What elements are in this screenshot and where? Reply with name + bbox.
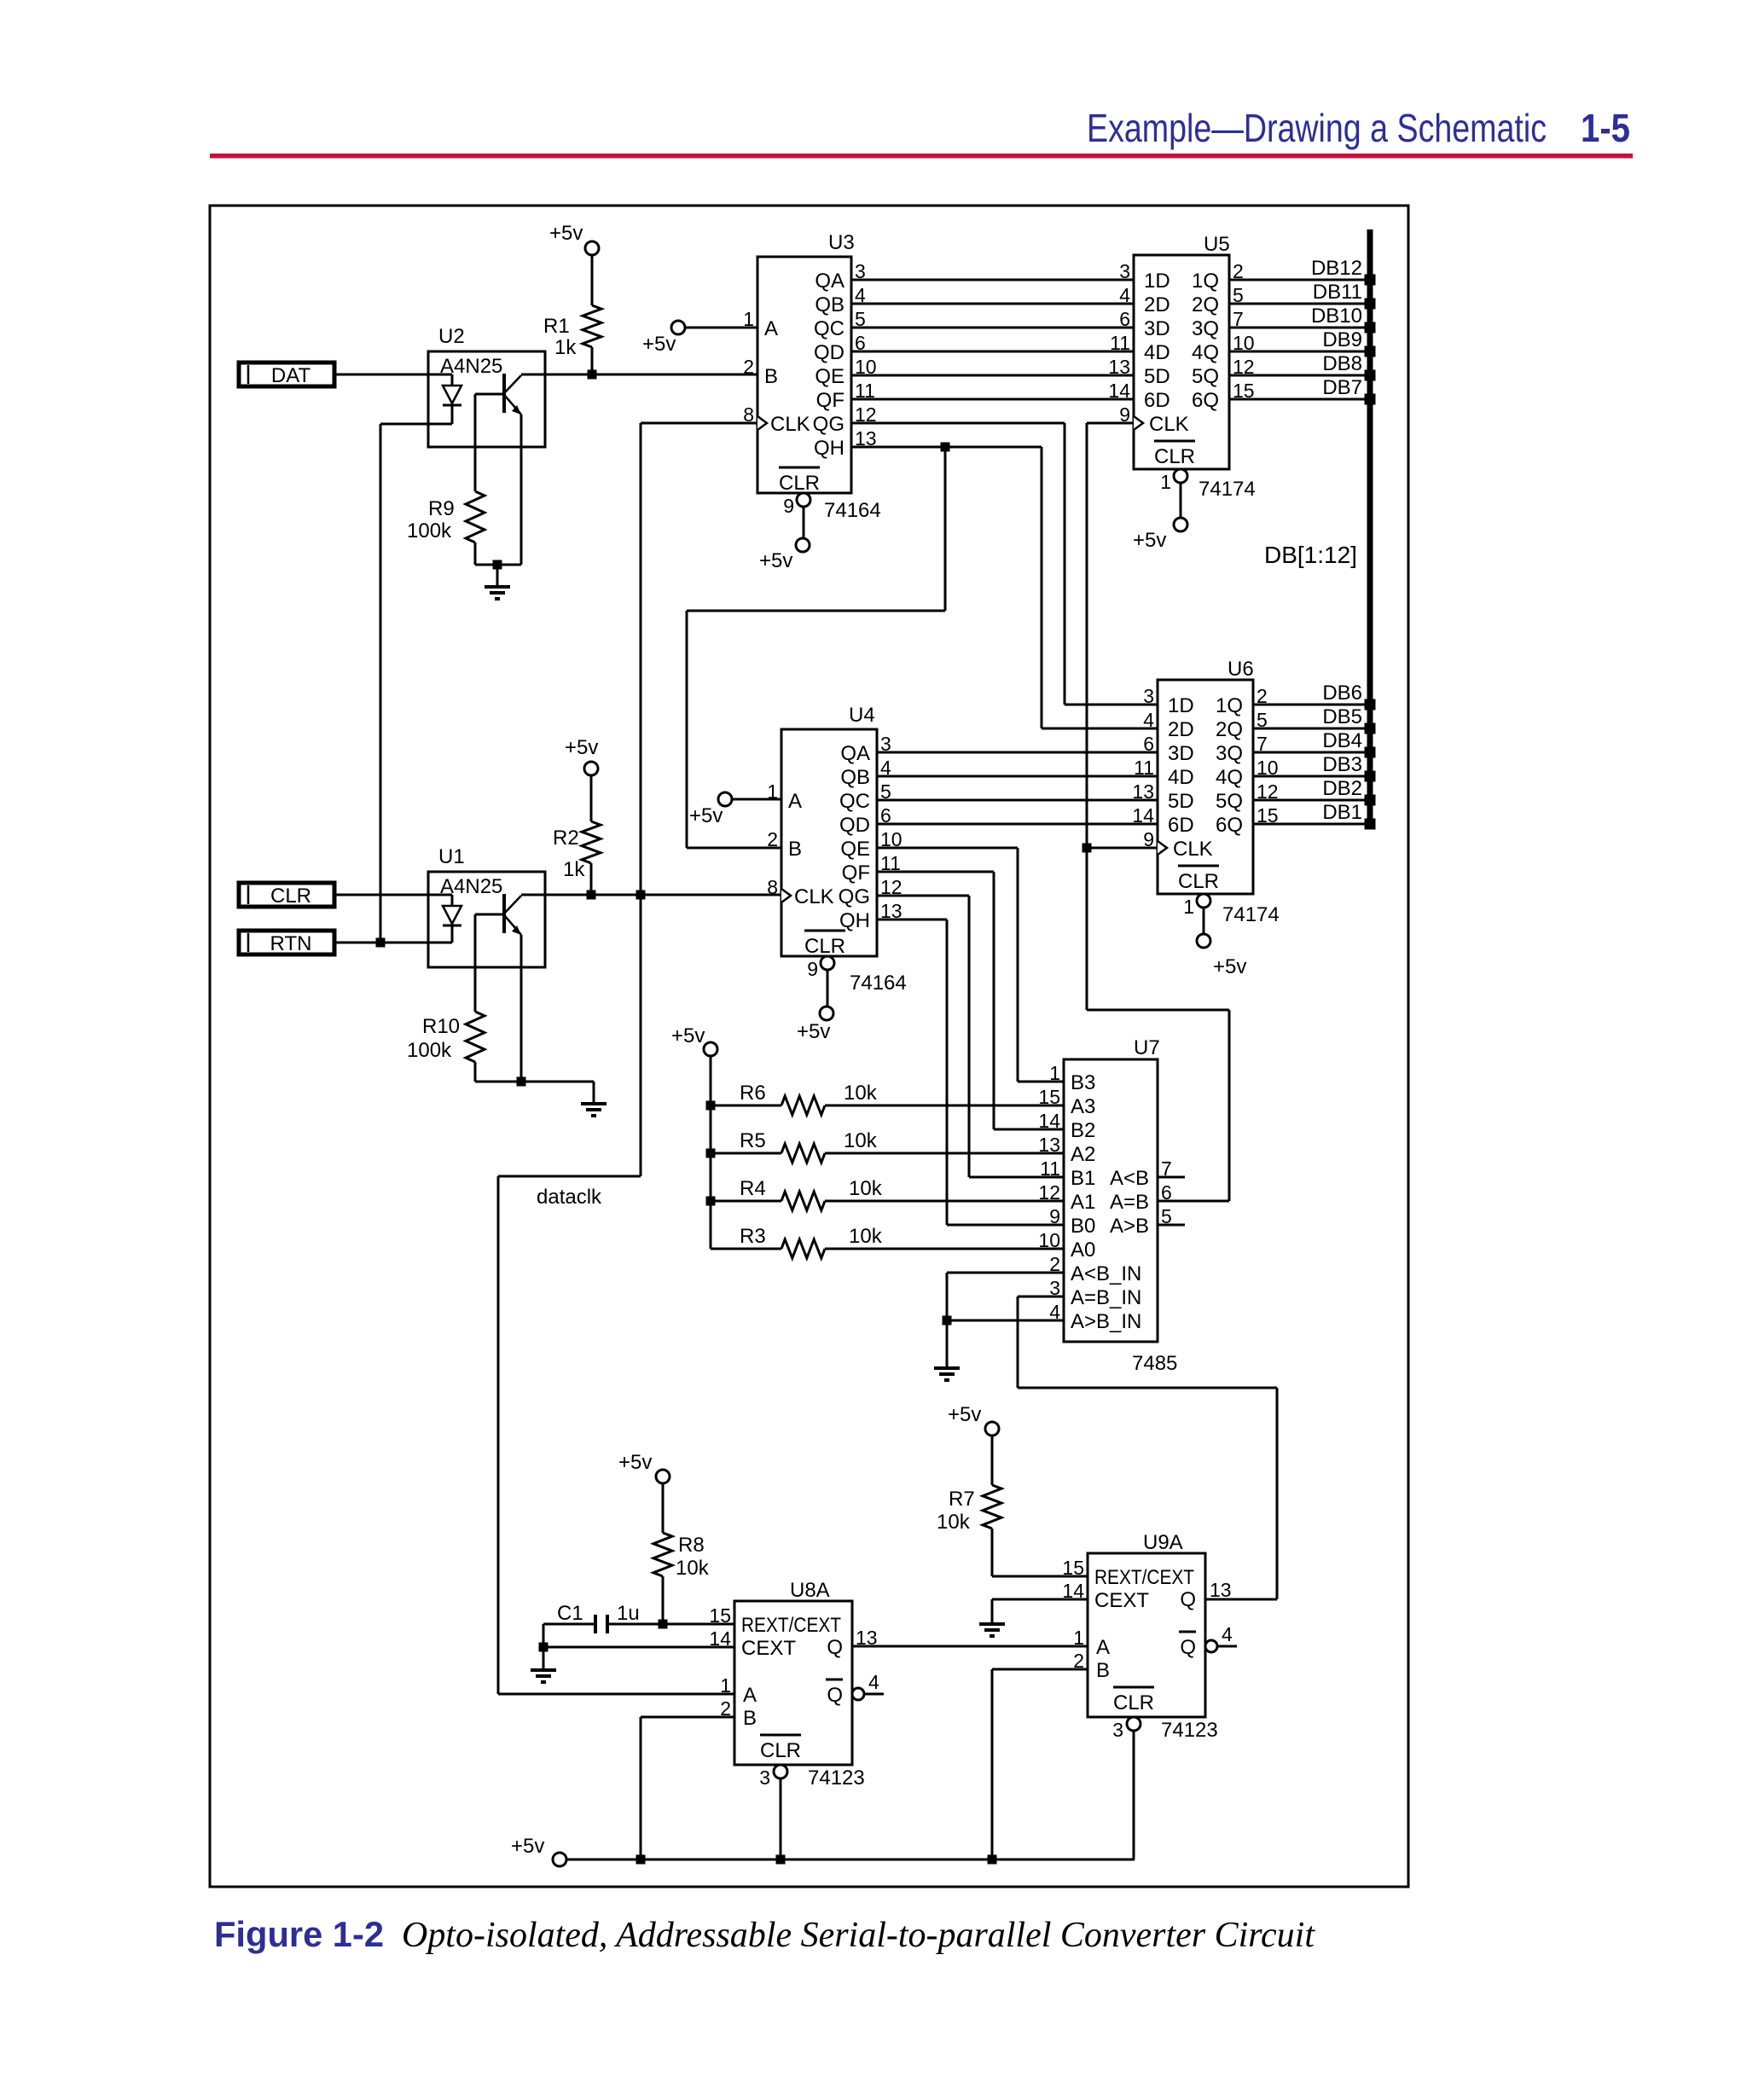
svg-text:2: 2 xyxy=(743,356,754,378)
svg-text:100k: 100k xyxy=(407,519,452,542)
svg-text:13: 13 xyxy=(1038,1134,1060,1156)
junction U1 emitter node xyxy=(517,1077,526,1087)
svg-text:DB12: DB12 xyxy=(1311,257,1362,280)
junction cascade ground node xyxy=(943,1316,952,1326)
svg-text:B3: B3 xyxy=(1071,1071,1095,1094)
svg-text:QG: QG xyxy=(813,413,844,436)
svg-text:CLR: CLR xyxy=(779,472,820,495)
wire U8A B to +5v rail xyxy=(641,1716,734,1719)
svg-text:4: 4 xyxy=(1143,709,1154,731)
svg-text:U9A: U9A xyxy=(1143,1531,1183,1554)
svg-text:5Q: 5Q xyxy=(1192,365,1219,388)
svg-text:Q: Q xyxy=(827,1636,843,1659)
wire U2 emitter down xyxy=(520,415,523,565)
svg-text:U6: U6 xyxy=(1228,658,1254,681)
svg-text:QC: QC xyxy=(814,317,844,340)
svg-text:1k: 1k xyxy=(554,336,577,359)
svg-text:R6: R6 xyxy=(740,1082,766,1105)
bus DB[1:12] xyxy=(1367,229,1373,824)
svg-text:A4N25: A4N25 xyxy=(440,875,502,898)
svg-text:A>B_IN: A>B_IN xyxy=(1071,1310,1141,1333)
svg-text:A2: A2 xyxy=(1071,1143,1095,1166)
svg-text:14: 14 xyxy=(1062,1580,1084,1602)
resistor R3 10k xyxy=(711,1248,781,1250)
U3 pin 9 CLR bubble to +5v xyxy=(797,493,810,507)
power +5v for R1 xyxy=(585,241,599,255)
svg-text:QB: QB xyxy=(815,293,844,316)
svg-text:U7: U7 xyxy=(1134,1036,1160,1059)
svg-text:A1: A1 xyxy=(1071,1191,1095,1214)
svg-text:B: B xyxy=(1096,1659,1110,1682)
wire U1 base to R10 xyxy=(474,914,477,1012)
svg-text:6D: 6D xyxy=(1144,389,1170,412)
svg-text:Figure 1-2: Figure 1-2 xyxy=(214,1914,384,1954)
svg-text:DB5: DB5 xyxy=(1322,705,1362,728)
U9A pin 3 CLR bubble xyxy=(1127,1717,1140,1731)
power +5v for R8 xyxy=(656,1470,670,1483)
wire C1 to CEXT and ground xyxy=(543,1624,545,1647)
svg-text:14: 14 xyxy=(1132,804,1154,827)
svg-text:4: 4 xyxy=(868,1671,879,1693)
svg-text:QE: QE xyxy=(840,838,870,861)
connector RTN xyxy=(239,931,334,954)
svg-text:+5v: +5v xyxy=(1133,529,1166,552)
net dataclk to U8A A xyxy=(640,895,642,1176)
svg-text:DB11: DB11 xyxy=(1313,281,1362,304)
wire U9A CEXT to ground xyxy=(992,1598,1088,1601)
svg-text:1: 1 xyxy=(767,780,778,803)
svg-text:3D: 3D xyxy=(1168,742,1194,765)
wire DAT to U2 LED anode xyxy=(334,374,452,376)
svg-text:3: 3 xyxy=(1112,1719,1123,1741)
schematic border frame xyxy=(210,206,1408,1887)
connector CLR xyxy=(239,883,334,907)
svg-text:6: 6 xyxy=(1161,1181,1172,1204)
svg-text:R5: R5 xyxy=(740,1129,766,1152)
svg-text:REXT/CEXT: REXT/CEXT xyxy=(741,1614,841,1637)
svg-text:+5v: +5v xyxy=(511,1835,544,1858)
svg-text:3Q: 3Q xyxy=(1192,317,1219,340)
svg-text:A3: A3 xyxy=(1071,1095,1095,1118)
bus junction dots U6 xyxy=(1365,699,1376,711)
svg-text:+5v: +5v xyxy=(642,333,676,356)
svg-text:A: A xyxy=(788,790,802,813)
svg-text:1: 1 xyxy=(1073,1627,1084,1649)
svg-text:1D: 1D xyxy=(1168,694,1194,717)
ground under U1 xyxy=(593,1082,595,1104)
svg-text:1k: 1k xyxy=(563,858,585,881)
junction R2 on clock line xyxy=(587,890,596,900)
svg-text:+5v: +5v xyxy=(759,549,792,572)
svg-text:9: 9 xyxy=(807,958,818,980)
svg-text:CLK: CLK xyxy=(770,413,810,436)
junction R5 feed xyxy=(706,1149,716,1158)
svg-text:A=B_IN: A=B_IN xyxy=(1071,1286,1141,1309)
svg-text:11: 11 xyxy=(1110,332,1130,354)
svg-text:U4: U4 xyxy=(849,704,875,727)
svg-text:CLR: CLR xyxy=(804,935,845,958)
svg-text:DB[1:12]: DB[1:12] xyxy=(1264,542,1357,568)
resistor R8 10k xyxy=(653,1533,672,1576)
wires U6 outputs to bus DB6-DB1 xyxy=(1253,704,1370,706)
svg-text:5D: 5D xyxy=(1144,365,1170,388)
junction U8A CLR on rail xyxy=(776,1855,786,1865)
svg-text:A=B: A=B xyxy=(1110,1191,1149,1214)
junction dataclk branch xyxy=(636,890,646,900)
svg-text:+5v: +5v xyxy=(689,804,723,827)
svg-text:QF: QF xyxy=(842,861,870,885)
ground for U7 cascade inputs xyxy=(934,1366,960,1370)
wire U1 emitter down xyxy=(520,935,523,1082)
svg-text:6Q: 6Q xyxy=(1192,389,1219,412)
bus junction dots U5 xyxy=(1365,275,1376,286)
capacitor C1 1u xyxy=(543,1623,595,1626)
svg-text:5D: 5D xyxy=(1168,790,1194,813)
power +5v to U4 pin A xyxy=(718,792,732,806)
svg-text:1D: 1D xyxy=(1144,270,1170,293)
svg-text:+5v: +5v xyxy=(1213,955,1246,978)
svg-text:Q: Q xyxy=(827,1684,843,1707)
U7 A>B output stub xyxy=(1158,1224,1185,1227)
junction R8-C1-REXT xyxy=(659,1620,668,1629)
svg-text:dataclk: dataclk xyxy=(537,1186,602,1209)
svg-text:1Q: 1Q xyxy=(1192,270,1219,293)
wire U7 cascade inputs to ground xyxy=(947,1272,1064,1274)
svg-text:CLR: CLR xyxy=(270,885,311,908)
svg-text:C1: C1 xyxy=(557,1602,583,1625)
svg-text:DB3: DB3 xyxy=(1322,753,1362,776)
U6 pin 1 CLR bubble to +5v xyxy=(1197,894,1210,908)
svg-text:B: B xyxy=(788,838,802,861)
power +5v for R2 xyxy=(584,762,598,775)
wire U4 QF to U7 B2 xyxy=(877,871,994,873)
svg-text:DB4: DB4 xyxy=(1322,729,1362,752)
svg-text:3Q: 3Q xyxy=(1216,742,1243,765)
svg-text:A>B: A>B xyxy=(1110,1215,1149,1238)
svg-text:CLR: CLR xyxy=(1113,1691,1154,1714)
svg-text:QE: QE xyxy=(815,365,844,388)
junction U9A B on rail xyxy=(988,1855,997,1865)
wire U2 LED cathode to RTN node xyxy=(380,423,452,426)
svg-text:12: 12 xyxy=(1038,1181,1060,1204)
svg-text:74123: 74123 xyxy=(808,1766,865,1790)
U7 A<B output stub xyxy=(1158,1176,1185,1179)
svg-text:DB7: DB7 xyxy=(1322,376,1362,399)
svg-text:QA: QA xyxy=(840,742,870,765)
svg-text:2: 2 xyxy=(767,828,778,850)
svg-text:4Q: 4Q xyxy=(1216,766,1243,789)
wire U2 collector to U3 pin B xyxy=(521,374,757,376)
optocoupler U1 box xyxy=(428,872,545,967)
svg-text:2D: 2D xyxy=(1144,293,1170,316)
wire U8A Q to U9A A xyxy=(852,1645,1088,1648)
svg-text:9: 9 xyxy=(1049,1205,1060,1227)
svg-text:7485: 7485 xyxy=(1132,1352,1177,1375)
svg-text:100k: 100k xyxy=(407,1039,452,1062)
U8A pin 3 CLR bubble xyxy=(774,1765,787,1778)
svg-text:QB: QB xyxy=(840,766,870,789)
svg-text:CLR: CLR xyxy=(1154,445,1195,468)
wire CLR to U1 LED anode xyxy=(334,894,452,896)
junction U3 QH branch xyxy=(941,443,950,452)
svg-text:2Q: 2Q xyxy=(1216,718,1243,741)
svg-text:+5v: +5v xyxy=(797,1020,830,1043)
svg-text:1: 1 xyxy=(743,308,754,330)
shift register U3 74164 box xyxy=(757,257,851,493)
svg-text:11: 11 xyxy=(1134,757,1154,779)
svg-text:A: A xyxy=(743,1684,757,1707)
svg-text:R7: R7 xyxy=(949,1488,975,1511)
junction U2 emitter-R9-ground xyxy=(493,560,502,570)
svg-text:RTN: RTN xyxy=(270,932,312,955)
header red rule xyxy=(210,154,1633,159)
svg-text:U8A: U8A xyxy=(790,1579,830,1602)
svg-text:14: 14 xyxy=(1038,1110,1060,1132)
one-shot U9A 74123 box xyxy=(1088,1553,1205,1717)
svg-text:R8: R8 xyxy=(678,1534,705,1557)
svg-text:QH: QH xyxy=(814,437,844,460)
svg-text:8: 8 xyxy=(743,403,754,426)
svg-text:3: 3 xyxy=(1119,260,1130,282)
svg-text:R3: R3 xyxy=(740,1225,766,1248)
svg-text:10k: 10k xyxy=(844,1082,878,1105)
wires U4 QA-QD to U6 3D-6D xyxy=(877,751,1158,754)
wire U3 QH to U6 2D xyxy=(851,446,1042,449)
svg-text:1: 1 xyxy=(1049,1062,1060,1084)
svg-text:QA: QA xyxy=(815,270,844,293)
wire dataclk to U3 CLK xyxy=(641,422,757,425)
svg-text:6D: 6D xyxy=(1168,814,1194,837)
one-shot U8A 74123 box xyxy=(734,1601,852,1765)
power +5v to U3 pin A xyxy=(671,321,685,334)
resistor R4 10k xyxy=(711,1200,781,1203)
svg-text:4: 4 xyxy=(1119,284,1130,306)
svg-text:CEXT: CEXT xyxy=(1094,1589,1149,1612)
svg-text:4D: 4D xyxy=(1144,341,1170,364)
svg-text:R1: R1 xyxy=(543,315,570,338)
svg-text:3: 3 xyxy=(1143,685,1154,707)
svg-text:1Q: 1Q xyxy=(1216,694,1243,717)
resistor R10 100k xyxy=(466,1012,485,1062)
wire U9A Q to U7 A=B_IN xyxy=(1018,1296,1064,1298)
svg-text:A: A xyxy=(764,317,778,340)
svg-text:1: 1 xyxy=(1183,896,1194,918)
power +5v for resistor bank xyxy=(704,1042,717,1056)
svg-text:14: 14 xyxy=(709,1627,731,1650)
ground under U2 xyxy=(496,565,499,587)
shift register U4 74164 box xyxy=(781,729,877,956)
svg-text:CLK: CLK xyxy=(794,885,834,908)
svg-text:10k: 10k xyxy=(676,1557,710,1580)
svg-text:R9: R9 xyxy=(428,497,455,520)
optocoupler U2 box xyxy=(428,351,545,447)
svg-text:R10: R10 xyxy=(422,1015,460,1038)
svg-text:6Q: 6Q xyxy=(1216,814,1243,837)
ground for U9A CEXT xyxy=(979,1622,1005,1626)
U5 pin 1 CLR bubble to +5v xyxy=(1174,469,1187,483)
svg-text:15: 15 xyxy=(709,1604,731,1627)
svg-text:5Q: 5Q xyxy=(1216,790,1243,813)
svg-text:11: 11 xyxy=(1040,1157,1060,1180)
wire U4 QE to U7 B3 xyxy=(877,847,1018,850)
svg-text:1-5: 1-5 xyxy=(1581,106,1630,150)
svg-text:DB8: DB8 xyxy=(1322,352,1362,375)
svg-text:+5v: +5v xyxy=(549,222,583,245)
svg-text:U1: U1 xyxy=(438,845,465,868)
svg-text:6: 6 xyxy=(1119,308,1130,330)
svg-text:15: 15 xyxy=(1038,1086,1060,1108)
wire U3 QH wrap to U4 pin B xyxy=(944,447,947,611)
svg-text:+5v: +5v xyxy=(671,1024,705,1047)
svg-text:10k: 10k xyxy=(937,1511,971,1534)
svg-text:CLK: CLK xyxy=(1149,413,1189,436)
svg-text:CLR: CLR xyxy=(760,1739,801,1762)
junction U8A B on rail xyxy=(636,1855,646,1865)
svg-text:4Q: 4Q xyxy=(1192,341,1219,364)
hex flip-flop U5 74174 box xyxy=(1134,255,1229,469)
U4 pin 9 CLR bubble to +5v xyxy=(821,956,834,970)
svg-text:QF: QF xyxy=(816,389,844,412)
wire U3 QG to U6 1D xyxy=(851,422,1065,425)
wire R7 to U9A REXT xyxy=(992,1575,1088,1578)
svg-text:+5v: +5v xyxy=(948,1403,981,1426)
connector DAT xyxy=(239,363,334,386)
svg-text:B2: B2 xyxy=(1071,1119,1095,1142)
svg-text:74164: 74164 xyxy=(850,972,907,995)
wire U4 QG to U7 B1 xyxy=(877,895,969,897)
svg-text:DB10: DB10 xyxy=(1311,305,1362,328)
svg-text:1: 1 xyxy=(720,1674,731,1697)
resistor R2 1k xyxy=(582,821,601,863)
svg-text:CEXT: CEXT xyxy=(741,1637,796,1660)
resistor R5 10k xyxy=(711,1152,781,1155)
junction RTN return node xyxy=(376,938,386,948)
svg-text:74174: 74174 xyxy=(1199,478,1256,501)
svg-text:U2: U2 xyxy=(438,325,465,348)
resistor R6 10k xyxy=(711,1105,781,1107)
svg-text:74174: 74174 xyxy=(1222,903,1280,926)
svg-text:A<B_IN: A<B_IN xyxy=(1071,1262,1141,1285)
svg-text:13: 13 xyxy=(1132,780,1154,803)
ground for U8A CEXT xyxy=(531,1668,556,1672)
svg-text:4D: 4D xyxy=(1168,766,1194,789)
junction C1-CEXT-ground xyxy=(539,1643,548,1652)
svg-text:A: A xyxy=(1096,1636,1110,1659)
svg-text:CLR: CLR xyxy=(1178,870,1219,893)
svg-text:Q: Q xyxy=(1180,1588,1196,1611)
svg-text:2D: 2D xyxy=(1168,718,1194,741)
svg-text:13: 13 xyxy=(1108,356,1130,378)
resistor R9 100k xyxy=(466,491,485,542)
svg-text:QC: QC xyxy=(839,790,870,813)
wire U2 base to R9 xyxy=(474,394,477,491)
svg-text:6: 6 xyxy=(1143,733,1154,755)
svg-text:9: 9 xyxy=(783,495,794,517)
power +5v rail at bottom xyxy=(553,1853,566,1866)
power +5v for R7 xyxy=(985,1422,999,1436)
svg-text:DB1: DB1 xyxy=(1322,801,1362,824)
junction R1-DAT line xyxy=(588,370,597,380)
svg-text:DAT: DAT xyxy=(271,364,311,387)
svg-text:U3: U3 xyxy=(828,231,855,254)
svg-text:14: 14 xyxy=(1108,380,1130,402)
transistor Q inside U2 xyxy=(502,374,506,413)
svg-text:QH: QH xyxy=(839,909,870,932)
svg-text:74123: 74123 xyxy=(1161,1719,1218,1742)
svg-text:R4: R4 xyxy=(740,1177,766,1200)
svg-text:2Q: 2Q xyxy=(1192,293,1219,316)
svg-text:DB2: DB2 xyxy=(1322,777,1362,800)
svg-text:9: 9 xyxy=(1143,828,1154,850)
svg-text:Opto-isolated, Addressable Ser: Opto-isolated, Addressable Serial-to-par… xyxy=(402,1916,1315,1955)
wire U4 QH to U7 B0 xyxy=(877,919,947,921)
svg-text:3D: 3D xyxy=(1144,317,1170,340)
svg-text:10k: 10k xyxy=(849,1177,883,1200)
svg-text:U5: U5 xyxy=(1204,233,1230,256)
svg-text:9: 9 xyxy=(1119,403,1130,426)
svg-text:QG: QG xyxy=(839,885,870,908)
svg-text:10k: 10k xyxy=(844,1129,878,1152)
wires U3 QA-QF to U5 1D-6D xyxy=(851,279,1134,281)
svg-text:Example—Drawing a Schematic: Example—Drawing a Schematic xyxy=(1087,106,1547,150)
svg-text:A0: A0 xyxy=(1071,1239,1095,1262)
svg-text:B1: B1 xyxy=(1071,1167,1095,1190)
junction R4 feed xyxy=(706,1197,716,1206)
svg-text:10: 10 xyxy=(1038,1229,1060,1251)
svg-text:10k: 10k xyxy=(849,1225,883,1248)
svg-text:QD: QD xyxy=(839,814,870,837)
U2 LED diode xyxy=(451,374,454,386)
svg-text:REXT/CEXT: REXT/CEXT xyxy=(1094,1566,1194,1589)
svg-text:A4N25: A4N25 xyxy=(440,355,502,378)
transistor Q inside U1 xyxy=(502,894,506,933)
resistor R1 1k xyxy=(583,305,601,347)
svg-text:+5v: +5v xyxy=(565,736,598,759)
svg-text:74164: 74164 xyxy=(824,499,881,522)
U1 LED diode xyxy=(451,895,454,906)
svg-text:1: 1 xyxy=(1160,471,1171,493)
svg-text:15: 15 xyxy=(1062,1557,1084,1579)
svg-text:B: B xyxy=(764,365,778,388)
resistor R7 10k xyxy=(983,1485,1001,1529)
svg-text:CLK: CLK xyxy=(1173,838,1213,861)
svg-text:DB6: DB6 xyxy=(1322,682,1362,705)
svg-text:QD: QD xyxy=(814,341,844,364)
svg-text:3: 3 xyxy=(759,1766,770,1789)
svg-text:Q: Q xyxy=(1180,1636,1196,1659)
svg-text:B0: B0 xyxy=(1071,1215,1095,1238)
svg-text:A<B: A<B xyxy=(1110,1167,1149,1190)
wires U5 outputs to bus DB12-DB7 xyxy=(1229,279,1370,281)
net CLK to U5 and U6 from U7 A=B xyxy=(1087,422,1134,425)
wire RTN to U1 LED cathode xyxy=(334,942,452,944)
hex flip-flop U6 74174 box xyxy=(1158,680,1253,894)
wire U1 collector clock line to U4 CLK xyxy=(521,894,781,896)
svg-text:DB9: DB9 xyxy=(1322,328,1362,351)
wire U9A B to +5v rail xyxy=(992,1668,1088,1671)
svg-text:13: 13 xyxy=(1210,1579,1232,1601)
svg-text:R2: R2 xyxy=(553,827,579,850)
svg-text:4: 4 xyxy=(1222,1623,1233,1645)
junction R6 feed xyxy=(706,1101,716,1111)
svg-text:1u: 1u xyxy=(617,1602,640,1625)
svg-text:+5v: +5v xyxy=(618,1451,652,1474)
svg-text:B: B xyxy=(743,1707,757,1730)
comparator U7 7485 box xyxy=(1064,1059,1158,1342)
